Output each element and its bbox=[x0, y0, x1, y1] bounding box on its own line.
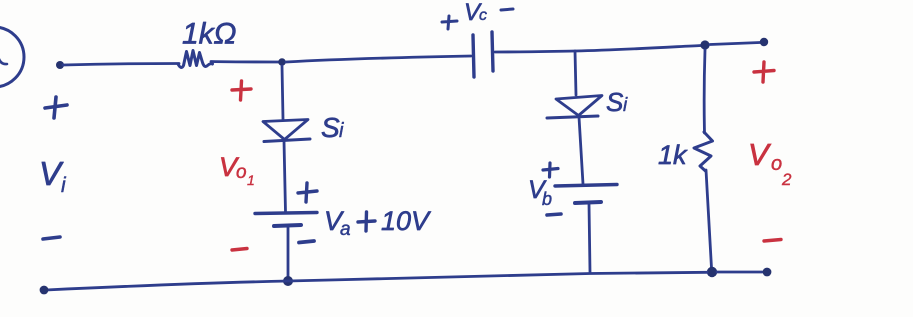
node B (junction dot) bbox=[700, 40, 709, 49]
svg-text:c: c bbox=[479, 7, 487, 24]
red minus (Vo2) bbox=[764, 240, 781, 242]
capacitor C (plates) bbox=[473, 35, 474, 77]
svg-text:S: S bbox=[606, 87, 624, 117]
wire: node B2 stub down to diode D2 bbox=[575, 51, 576, 95]
wire: resistor R2 to bottom node bbox=[706, 170, 712, 268]
svg-text:a: a bbox=[340, 219, 351, 240]
wire: node A down to diode D1 bbox=[282, 66, 283, 119]
red plus (Vo1) bbox=[232, 81, 251, 100]
node: left bottom terminal bbox=[40, 286, 49, 295]
wire: node A to capacitor bbox=[286, 56, 471, 62]
diode D2 (Si) bbox=[556, 96, 602, 116]
wire: resistor to node A bbox=[211, 60, 280, 63]
wire: capacitor to node B bbox=[495, 46, 701, 53]
svg-text:S: S bbox=[321, 112, 340, 143]
wire: diode D1 to battery Va bbox=[284, 141, 286, 212]
svg-text:b: b bbox=[542, 189, 552, 209]
polarity + (Vc) bbox=[442, 16, 457, 29]
wire: battery Vb to bottom wire bbox=[589, 204, 590, 272]
red plus (Vo2) bbox=[754, 62, 774, 82]
wire: diode D2 to battery Vb bbox=[579, 117, 583, 184]
battery Va+10V top plate bbox=[255, 213, 317, 214]
wire: node B to right terminal bbox=[710, 43, 760, 45]
label +10V bbox=[358, 212, 375, 231]
wire: battery Va to bottom wire bbox=[287, 227, 290, 280]
wire: node B down to resistor R2 bbox=[703, 50, 707, 133]
wire: left terminal to resistor R1 bbox=[63, 64, 179, 66]
battery Va minus sign bbox=[299, 241, 314, 243]
svg-text:o: o bbox=[236, 162, 247, 183]
svg-text:1: 1 bbox=[247, 172, 255, 188]
node: bottom junction 1 bbox=[283, 276, 293, 286]
svg-text:i: i bbox=[339, 120, 344, 142]
svg-text:1k: 1k bbox=[658, 140, 688, 170]
battery Vb top plate bbox=[555, 185, 617, 187]
red annotations bbox=[219, 62, 792, 250]
diode D1 (Si) bbox=[263, 120, 308, 140]
svg-text:i: i bbox=[61, 174, 67, 197]
node: right bottom terminal bbox=[763, 268, 772, 277]
Vi minus sign bbox=[43, 237, 60, 239]
wire: bottom rail bbox=[46, 272, 762, 290]
source circle (partial, clipped at left edge) bbox=[0, 27, 24, 87]
node: right top terminal bbox=[760, 38, 768, 46]
battery Vb plus sign bbox=[543, 163, 558, 177]
node A (junction dot) bbox=[278, 58, 286, 66]
battery Vb minus sign bbox=[547, 214, 561, 215]
node: left top terminal bbox=[56, 61, 64, 69]
battery Va plus sign bbox=[298, 183, 317, 202]
svg-text:i: i bbox=[623, 95, 628, 116]
svg-text:o: o bbox=[771, 153, 782, 175]
svg-text:V: V bbox=[748, 137, 772, 172]
battery Vb bottom plate bbox=[575, 202, 601, 203]
battery Va+10V bottom plate bbox=[274, 225, 301, 226]
source inner squiggle bbox=[0, 56, 7, 64]
resistor R1 1k (zigzag) bbox=[178, 51, 213, 68]
Vi plus sign bbox=[45, 97, 67, 118]
svg-text:1kΩ: 1kΩ bbox=[182, 18, 237, 51]
svg-text:2: 2 bbox=[781, 170, 792, 189]
resistor R2 1k (vertical zigzag) bbox=[694, 132, 713, 171]
red minus (Vo1) bbox=[232, 249, 247, 251]
node: bottom junction 2 bbox=[707, 267, 717, 277]
polarity - (Vc) bbox=[501, 9, 513, 10]
svg-text:10V: 10V bbox=[381, 206, 432, 236]
